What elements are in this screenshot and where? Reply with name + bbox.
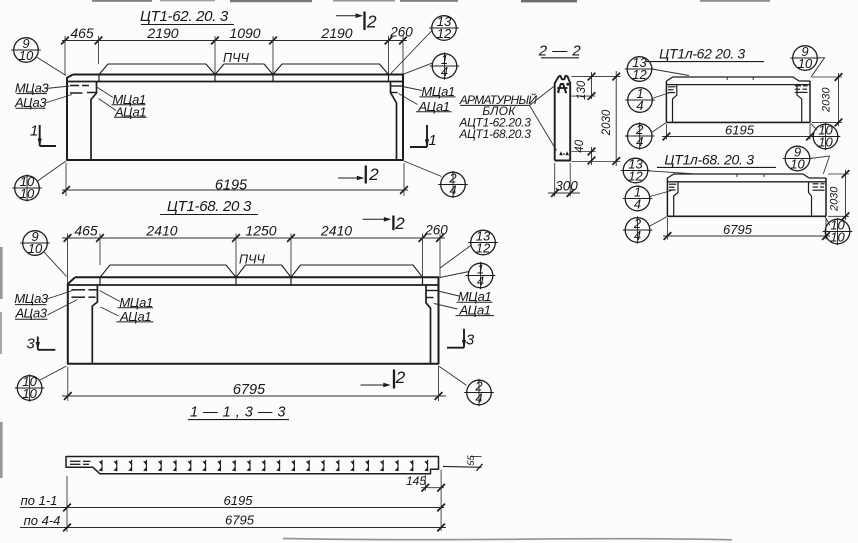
svg-text:10: 10: [28, 241, 43, 256]
svg-text:2: 2: [368, 165, 379, 184]
svg-text:2 — 2: 2 — 2: [538, 43, 582, 60]
svg-text:4: 4: [636, 98, 643, 113]
svg-text:6195: 6195: [224, 493, 254, 508]
svg-text:12: 12: [632, 67, 647, 82]
svg-text:ЦТ1-68. 20 3: ЦТ1-68. 20 3: [167, 198, 252, 215]
svg-text:145: 145: [406, 474, 426, 488]
svg-text:1: 1: [428, 132, 436, 149]
svg-text:АЦа3: АЦа3: [14, 306, 47, 321]
svg-text:300: 300: [555, 179, 578, 194]
svg-text:2: 2: [394, 214, 405, 233]
svg-text:4: 4: [634, 197, 641, 212]
svg-text:6795: 6795: [723, 222, 753, 237]
svg-text:ПЧЧ: ПЧЧ: [223, 51, 249, 65]
svg-text:2: 2: [366, 12, 377, 32]
svg-text:10: 10: [818, 135, 833, 150]
svg-text:10: 10: [830, 230, 845, 245]
svg-text:АЦТ1-68.20.3: АЦТ1-68.20.3: [458, 127, 531, 141]
svg-text:130: 130: [576, 80, 588, 100]
svg-text:2030: 2030: [828, 186, 840, 212]
svg-text:4: 4: [477, 274, 484, 289]
svg-text:3: 3: [466, 332, 475, 349]
svg-text:4: 4: [636, 134, 643, 149]
svg-text:4: 4: [441, 64, 448, 79]
svg-text:2: 2: [395, 368, 406, 387]
svg-text:2190: 2190: [320, 25, 352, 41]
svg-text:4: 4: [634, 228, 641, 243]
svg-text:465: 465: [74, 223, 98, 239]
svg-text:10: 10: [790, 157, 805, 172]
svg-text:6795: 6795: [233, 382, 266, 398]
svg-text:40: 40: [574, 139, 586, 152]
svg-text:12: 12: [476, 241, 491, 256]
svg-text:1 — 1 , 3 — 3: 1 — 1 , 3 — 3: [190, 405, 286, 421]
svg-text:ЦТ1л-68. 20. 3: ЦТ1л-68. 20. 3: [664, 152, 754, 168]
svg-text:по 1-1: по 1-1: [21, 493, 58, 508]
svg-text:10: 10: [20, 186, 35, 201]
svg-text:55: 55: [466, 455, 477, 466]
svg-text:1250: 1250: [245, 223, 276, 239]
svg-text:АЦа1: АЦа1: [458, 302, 490, 317]
svg-text:2410: 2410: [145, 223, 177, 239]
svg-text:2030: 2030: [821, 87, 833, 113]
svg-text:6795: 6795: [225, 513, 255, 528]
svg-text:6195: 6195: [215, 178, 248, 194]
svg-text:10: 10: [22, 386, 37, 401]
svg-text:4: 4: [475, 391, 482, 406]
svg-text:ЦТ1л-62 20. 3: ЦТ1л-62 20. 3: [659, 46, 745, 62]
svg-text:ЦТ1-62. 20. 3: ЦТ1-62. 20. 3: [140, 8, 229, 25]
svg-text:3: 3: [26, 336, 35, 353]
svg-text:по 4-4: по 4-4: [24, 513, 61, 528]
svg-text:260: 260: [424, 223, 448, 238]
svg-text:2410: 2410: [320, 223, 352, 239]
svg-text:2190: 2190: [146, 25, 178, 41]
svg-text:4: 4: [449, 183, 456, 198]
svg-text:1: 1: [30, 123, 38, 140]
svg-text:1090: 1090: [229, 25, 260, 41]
svg-text:ПЧЧ: ПЧЧ: [239, 253, 265, 267]
svg-text:10: 10: [798, 56, 813, 71]
svg-text:МЦа3: МЦа3: [14, 291, 48, 306]
svg-text:10: 10: [19, 48, 34, 63]
svg-text:260: 260: [389, 25, 413, 40]
svg-text:6195: 6195: [725, 123, 755, 138]
svg-text:465: 465: [70, 25, 94, 41]
svg-text:12: 12: [628, 169, 643, 184]
svg-text:12: 12: [437, 26, 452, 41]
svg-text:2030: 2030: [601, 109, 613, 136]
